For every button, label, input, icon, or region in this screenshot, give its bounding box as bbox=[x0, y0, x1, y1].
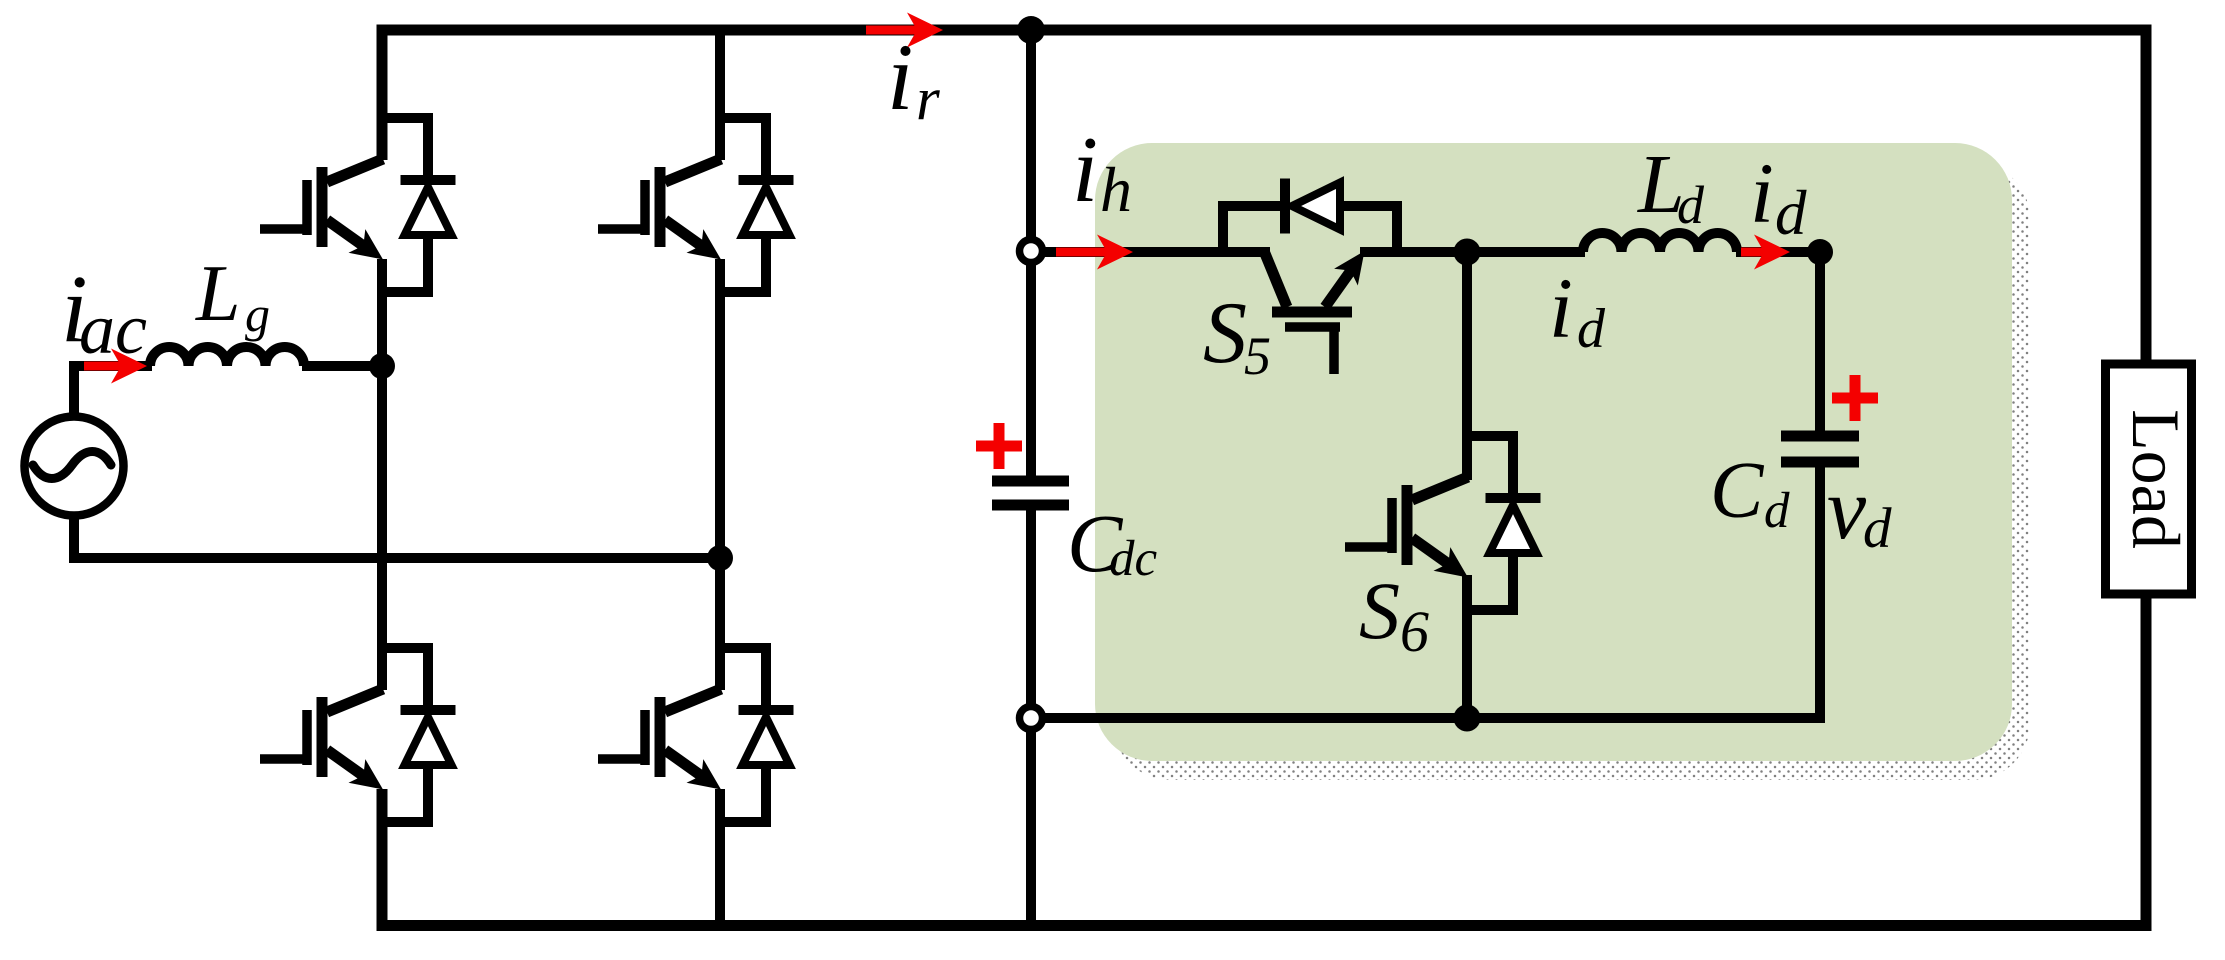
wire S5 emitter to node bbox=[1360, 247, 1472, 257]
svg-text:g: g bbox=[245, 286, 270, 342]
wire right leg top segment bbox=[715, 30, 725, 160]
wire left leg middle segment bbox=[377, 259, 387, 690]
svg-text:5: 5 bbox=[1244, 326, 1271, 386]
transistor Q2 (top-right IGBT with freewheel diode) bbox=[598, 118, 794, 292]
green decoupling region bbox=[1095, 143, 2012, 761]
current arrow i_ac bbox=[84, 362, 121, 371]
inductor Lg bbox=[150, 347, 304, 366]
transistor Q3 (bottom-left IGBT with freewheel diode) bbox=[260, 648, 456, 822]
plus sign at Cdc bbox=[976, 441, 1022, 452]
node at top rail dc bus bbox=[1017, 16, 1045, 44]
svg-text:d: d bbox=[1863, 497, 1892, 560]
current arrow i_d bbox=[1741, 248, 1764, 257]
wire top rail with left and right drops bbox=[382, 30, 2146, 364]
capacitor Cd bbox=[1781, 431, 1859, 442]
transistor S6 (IGBT with antiparallel diode) bbox=[1345, 436, 1541, 610]
wire Ld to node id bbox=[1736, 247, 1825, 257]
wire decoupling bottom rail bbox=[1031, 713, 1820, 723]
terminal dc bus lower bbox=[1020, 707, 1043, 730]
wire node to inductor Ld bbox=[1467, 247, 1585, 257]
plus sign at Cd bbox=[1832, 393, 1878, 404]
wire right leg middle segment bbox=[715, 259, 725, 690]
wire right leg bottom segment bbox=[715, 789, 725, 925]
svg-text:S: S bbox=[1203, 285, 1247, 382]
transistor S5 (IGBT with antiparallel diode, horizontal) bbox=[1223, 179, 1397, 375]
wire capacitor Cd upper bbox=[1815, 252, 1825, 436]
svg-text:r: r bbox=[916, 66, 940, 133]
svg-text:d: d bbox=[1764, 483, 1790, 539]
capacitor Cdc bbox=[992, 476, 1069, 487]
shadow of decoupling region bbox=[1113, 162, 2030, 780]
svg-text:C: C bbox=[1710, 447, 1765, 535]
node S6 emitter bottom bbox=[1454, 705, 1481, 732]
node S5/S6/Ld junction bbox=[1454, 239, 1481, 266]
inductor Ld bbox=[1583, 233, 1737, 252]
svg-text:i: i bbox=[1549, 260, 1573, 356]
svg-text:L: L bbox=[195, 250, 241, 338]
svg-text:h: h bbox=[1100, 154, 1132, 225]
svg-text:i: i bbox=[887, 24, 913, 130]
svg-text:Load: Load bbox=[2118, 409, 2194, 549]
svg-text:i: i bbox=[1750, 145, 1774, 241]
svg-text:d: d bbox=[1677, 175, 1705, 235]
wire ac source top lead bbox=[74, 366, 152, 417]
node Ld/Cd junction bbox=[1807, 239, 1833, 265]
node at inverter output (Lg to bridge) bbox=[369, 353, 395, 379]
wire ac source bottom lead to right leg bbox=[74, 515, 725, 558]
wire capacitor Cd lower bbox=[1815, 462, 1825, 723]
wire bottom rail with left drop and right rise to load bbox=[382, 594, 2146, 926]
load resistor box bbox=[2106, 364, 2192, 594]
wire dc bus lower bbox=[1026, 505, 1036, 925]
node at right leg midpoint bbox=[707, 545, 733, 571]
svg-text:6: 6 bbox=[1400, 599, 1429, 664]
wire inductor Lg to bridge node bbox=[302, 361, 387, 371]
svg-text:dc: dc bbox=[1109, 531, 1158, 587]
wire S6 collector drop bbox=[1462, 252, 1472, 480]
svg-text:i: i bbox=[1072, 118, 1098, 222]
terminal dc bus upper bbox=[1020, 240, 1043, 263]
wire dc bus upper bbox=[1026, 30, 1036, 481]
svg-text:d: d bbox=[1775, 178, 1807, 248]
svg-text:d: d bbox=[1577, 298, 1606, 360]
ac source vs bbox=[25, 417, 124, 516]
transistor Q4 (bottom-right IGBT with freewheel diode) bbox=[598, 648, 794, 822]
current arrow i_r bbox=[866, 26, 917, 35]
svg-text:S: S bbox=[1359, 565, 1400, 656]
svg-text:v: v bbox=[1827, 461, 1867, 558]
wire S6 emitter drop bbox=[1462, 575, 1472, 718]
svg-text:ac: ac bbox=[79, 289, 147, 369]
wire decoupling top rail bbox=[1031, 247, 1270, 257]
current arrow i_h bbox=[1056, 248, 1107, 257]
transistor Q1 (top-left IGBT with freewheel diode) bbox=[260, 118, 456, 292]
